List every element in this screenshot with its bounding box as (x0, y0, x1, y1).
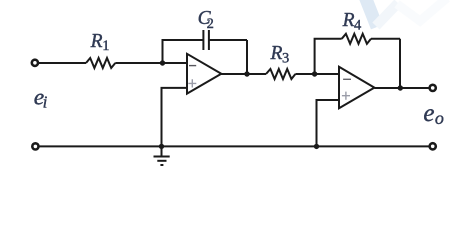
svg-text:R: R (270, 43, 283, 64)
svg-text:o: o (435, 108, 444, 128)
svg-text:2: 2 (207, 16, 214, 32)
svg-text:4: 4 (354, 18, 362, 34)
svg-text:e: e (423, 100, 434, 127)
svg-text:R: R (342, 10, 355, 31)
svg-text:R: R (90, 31, 103, 52)
svg-text:3: 3 (282, 51, 289, 67)
svg-text:1: 1 (102, 38, 109, 54)
svg-text:i: i (43, 93, 48, 112)
